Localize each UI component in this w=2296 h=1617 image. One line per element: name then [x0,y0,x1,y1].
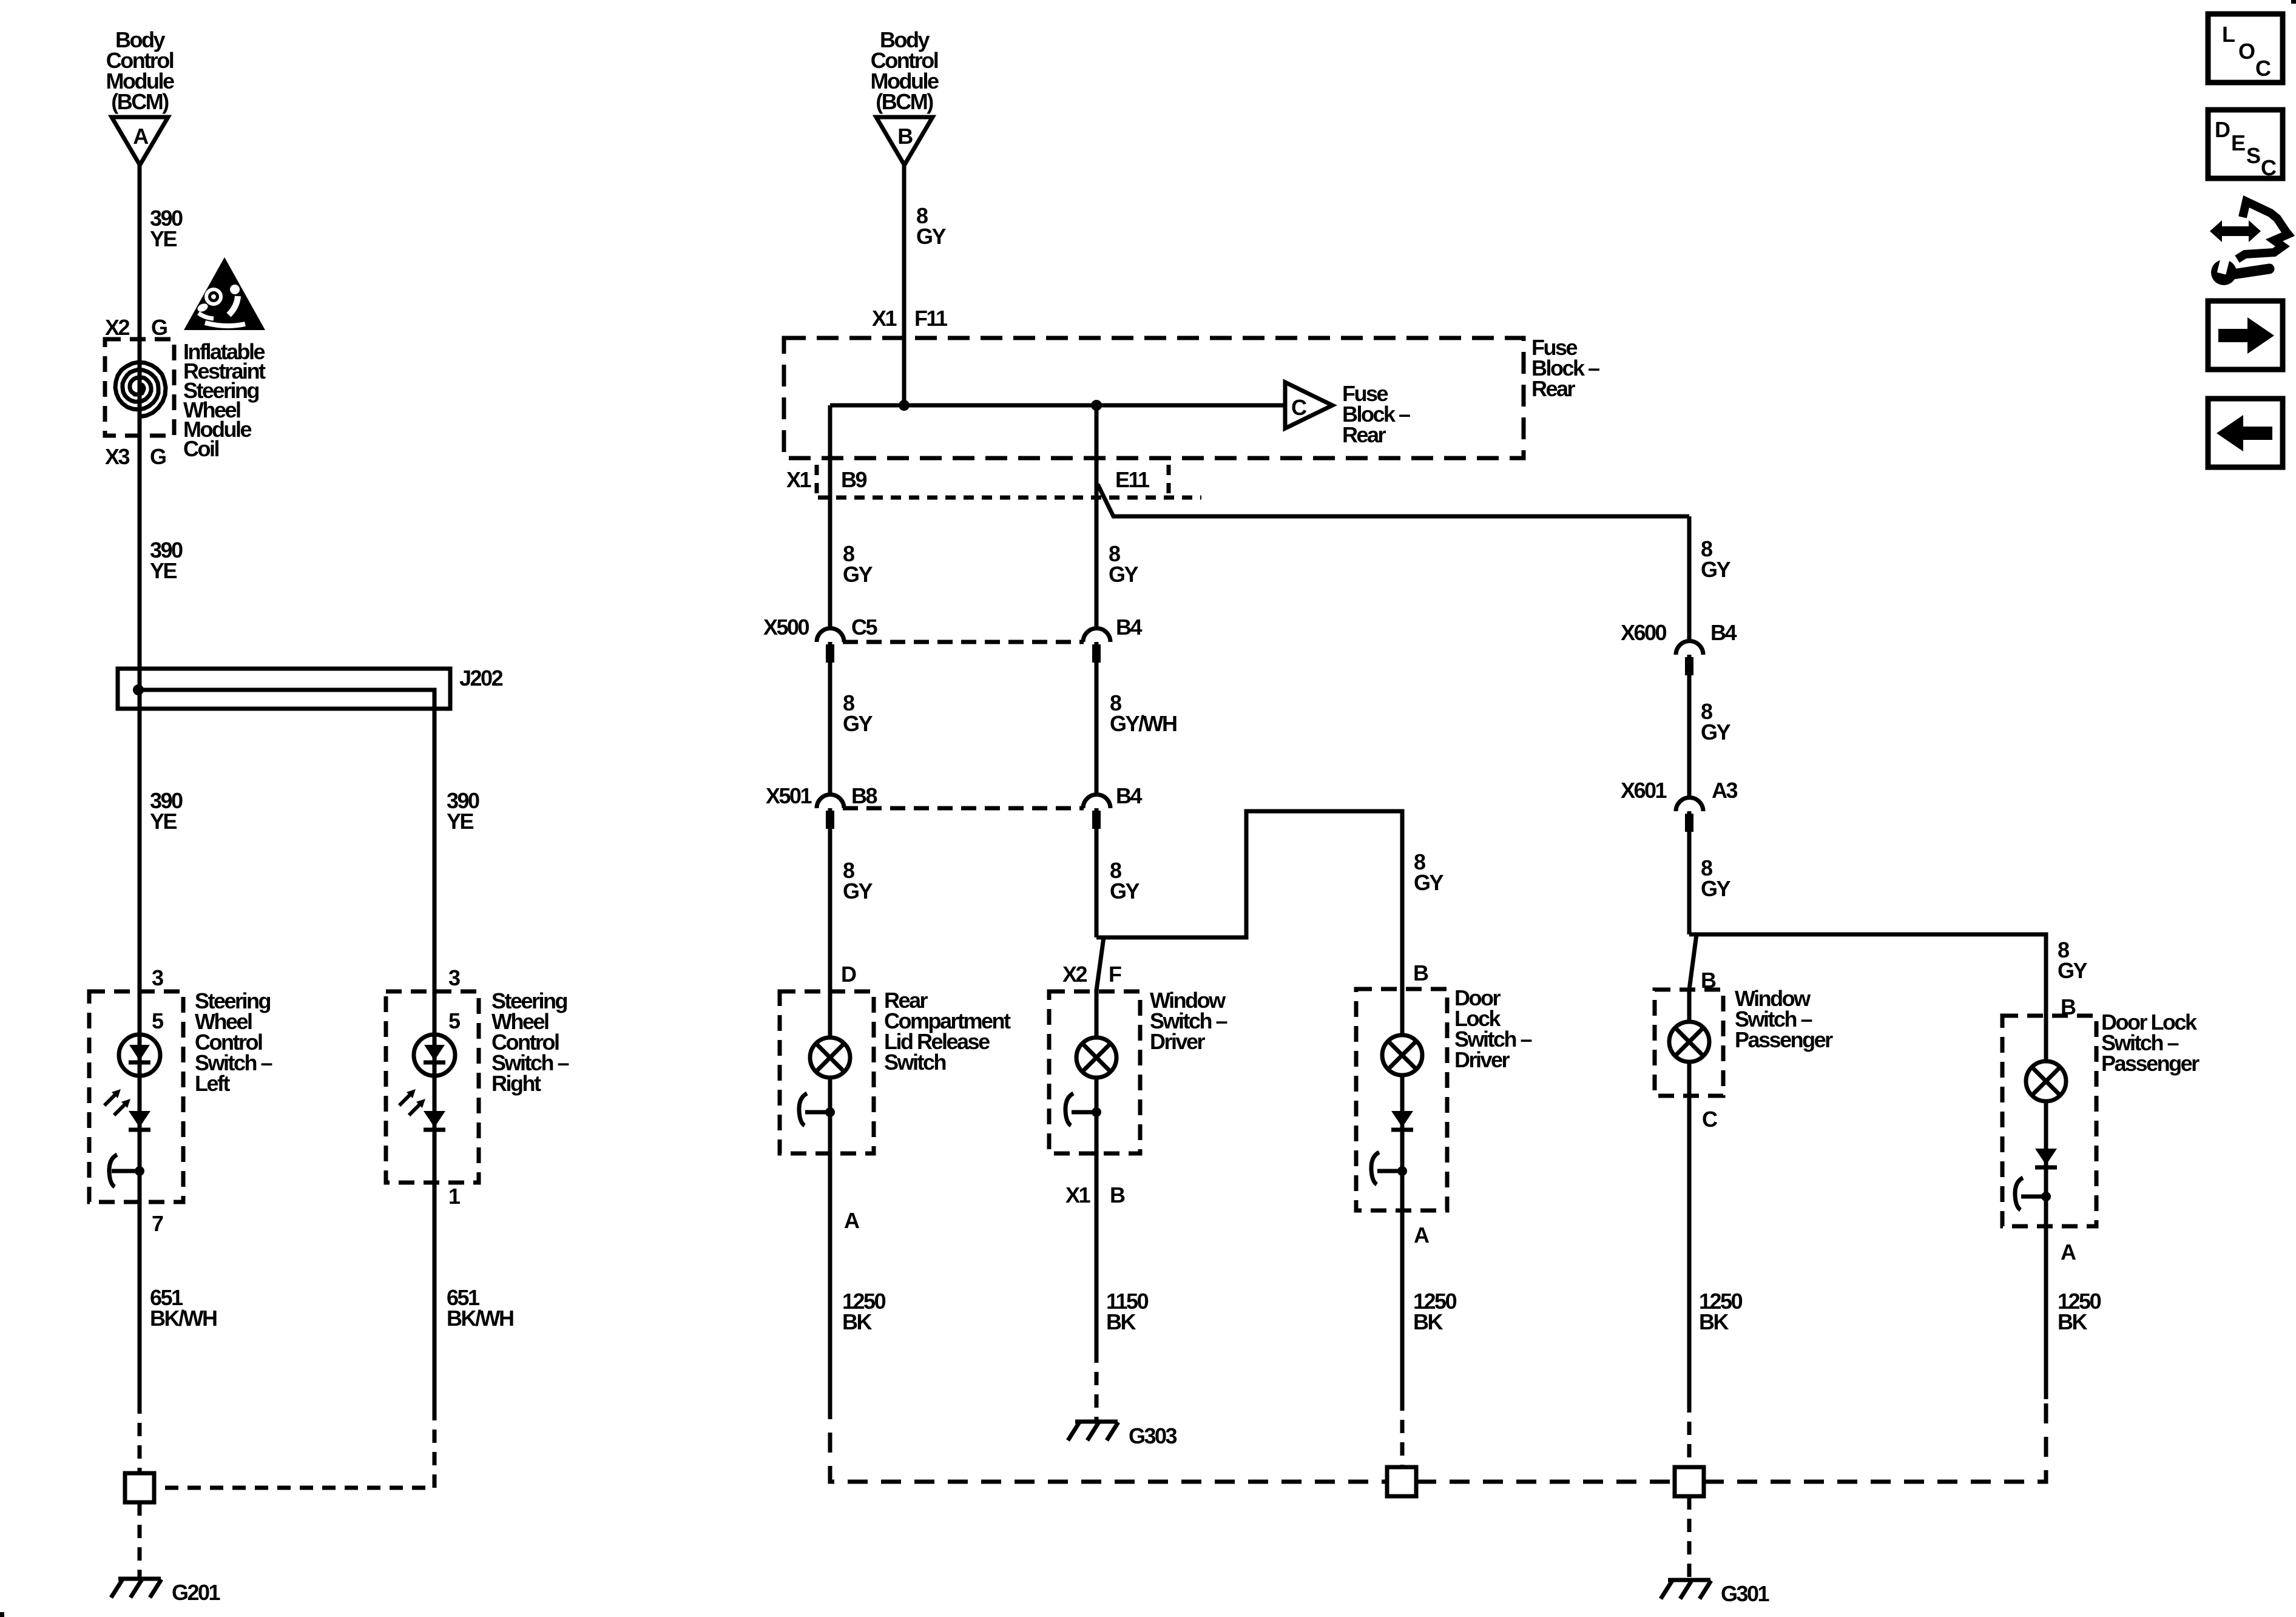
switch contact window driver [1065,1093,1101,1126]
splice pack J202 [118,666,503,709]
node X2 pin F window driver [1062,962,1121,987]
bus dashed between splices [1416,1480,1675,1484]
splice square window passenger [1675,1467,1704,1496]
node X600 labels [1621,620,1737,645]
label Inflatable Restraint Steering Wheel Module Coil [183,339,266,461]
wire dashed window passenger to splice [1687,1399,1692,1467]
svg-text:B4: B4 [1116,615,1142,640]
svg-text:B: B [897,124,913,149]
switch contact door passenger [2015,1178,2051,1210]
pin 7 [152,1211,163,1236]
lamp rear compartment [810,1038,850,1078]
svg-text:J202: J202 [459,666,503,690]
label 1250 BK window passenger [1699,1289,1743,1334]
svg-text:A: A [2061,1240,2076,1264]
label 1250 BK door passenger [2058,1289,2101,1334]
node X1 pins B9 E11 [786,467,1150,492]
diode door passenger [2035,1149,2057,1167]
svg-text:C: C [2255,56,2271,81]
ground G201 [111,1579,221,1605]
label 8 GY below X500 [843,690,873,736]
svg-text:A: A [844,1208,860,1233]
svg-text:5: 5 [448,1008,461,1033]
node X500 labels [763,615,1142,640]
wire through door driver [1400,989,1405,1397]
label Fuse Block - Rear (outside box) [1531,335,1599,401]
label 390 YE [150,538,183,583]
inflatable restraint coil dashed box [105,339,174,436]
node X601 labels [1621,778,1737,803]
wire window driver branch [1096,811,1402,989]
svg-text:L: L [2222,22,2235,47]
svg-text:X3: X3 [105,444,130,469]
junction dot at E11 branch [1091,400,1102,411]
svg-text:F: F [1109,962,1121,987]
fuse block connector bracket X1 [817,465,1201,498]
svg-text:A: A [1414,1223,1430,1247]
svg-text:E: E [2231,130,2245,155]
pin 3 right [448,965,460,990]
connector triangle C to fuse block rear [1285,382,1332,428]
label 651 BK/WH left [150,1285,217,1331]
label 8 GY door driver [1414,849,1444,895]
pin 5 left [152,1008,164,1033]
svg-text:G303: G303 [1129,1423,1177,1448]
junction dot below B [899,400,910,411]
svg-text:B9: B9 [841,467,866,492]
svg-text:X1: X1 [786,467,812,492]
connector X601 A3 [1676,798,1703,832]
fuse block rear dashed box [784,338,1524,458]
icon previous arrow box [2208,399,2283,467]
wire dashed door driver to splice [1400,1397,1405,1467]
pin B door driver [1413,960,1428,985]
svg-text:X500: X500 [763,615,809,640]
steering wheel control switch left dashed box [89,991,183,1202]
connector triangle B (BCM) [876,117,933,165]
node X2 pin G [105,315,167,340]
junction dot in J202 [133,684,144,695]
svg-text:X2: X2 [105,315,130,340]
connector X600 B4 [1676,641,1703,676]
wire from J202 junction to right branch [138,690,434,1407]
wire dashed splice to G301 [1687,1496,1692,1579]
svg-text:A3: A3 [1712,778,1737,803]
svg-text:3: 3 [448,965,460,990]
diode right switch [424,1111,445,1130]
svg-text:D: D [841,962,856,987]
icon next arrow box [2208,301,2283,370]
diode door driver [1391,1111,1413,1130]
label Rear Compartment Lid Release Switch [884,988,1011,1075]
wire dashed rear compartment to bus [830,1399,1387,1482]
node X1 pin F11 [872,306,948,331]
icon harness repair (arrow, outline, wrench) [2210,201,2288,285]
lamp door driver [1382,1035,1422,1075]
wire branch to door lock passenger [1689,934,2046,1014]
ground G303 [1068,1422,1177,1448]
svg-text:D: D [2215,117,2230,142]
label 8 GY/WH below X500 B4 [1110,690,1177,736]
svg-text:B8: B8 [851,783,877,808]
pin A rear compartment [844,1208,860,1233]
splice square door driver [1387,1467,1416,1496]
label Fuse Block - Rear (at triangle C) [1342,381,1410,447]
wire slant into window switch passenger [1689,934,1697,990]
page corner mark top right [2291,0,2296,4]
connector X500 B4 half [1083,629,1110,663]
label 8 GY (E11) [1109,541,1139,587]
svg-text:B4: B4 [1116,783,1142,808]
label Window Switch - Driver [1150,988,1227,1054]
lamp window driver [1076,1038,1116,1078]
wire through door passenger [2044,1014,2048,1399]
door lock switch passenger dashed box [2002,1016,2096,1226]
diode left switch [129,1111,150,1130]
steering wheel control switch right dashed box [386,991,479,1183]
wire 390 YE from BCM A down [138,165,142,669]
node Body Control Module (BCM) A label [106,27,174,114]
LED arrows left [104,1089,130,1115]
coil (clockspring spiral) [115,362,166,417]
window switch driver dashed box [1049,991,1140,1153]
svg-text:X501: X501 [766,783,812,808]
svg-text:C5: C5 [851,615,877,640]
pin B door passenger [2061,994,2076,1019]
svg-text:C: C [2261,155,2277,180]
label 651 BK/WH right [447,1285,513,1331]
svg-text:E11: E11 [1115,467,1150,492]
svg-text:G: G [150,444,166,469]
svg-text:G201: G201 [172,1580,221,1605]
svg-text:O: O [2238,39,2255,64]
LED lamp right switch [414,1035,455,1076]
bus dashed to door passenger corner [1704,1399,2046,1482]
node X3 pin G [105,444,166,469]
svg-text:A: A [133,124,149,149]
pin 3 left [152,965,163,990]
label 390 YE left branch [150,788,183,834]
pin A door passenger [2061,1240,2076,1264]
window switch passenger dashed box [1655,990,1723,1096]
svg-text:B4: B4 [1710,620,1737,645]
inline connector X501 dashed line [843,806,1084,811]
page corner mark bottom left [0,1612,4,1617]
node Body Control Module (BCM) B label [871,27,939,114]
label 390 YE right branch [447,788,479,834]
wire dashed to G303 [1095,1349,1099,1420]
label Door Lock Switch - Passenger [2101,1010,2200,1076]
svg-text:B: B [1413,960,1428,985]
connector triangle A (BCM) [112,117,168,165]
label Door Lock Switch - Driver [1454,985,1532,1072]
connector X501 B4 half [1083,795,1110,829]
pin 5 right [448,1008,461,1033]
label 8 GY (B9) [843,541,873,587]
pin B window passenger [1701,968,1716,993]
LED lamp left switch [119,1035,160,1076]
svg-text:3: 3 [152,965,163,990]
connector X501 B8 half [817,795,844,829]
icon DESC box [2208,110,2283,180]
svg-text:G: G [151,315,167,340]
svg-text:B: B [1110,1183,1125,1207]
label 390 YE [150,206,183,251]
ground G301 [1661,1580,1770,1606]
svg-text:F11: F11 [914,306,948,331]
label 8 GY below X600 [1701,699,1731,744]
wire dashed left to splice [138,1400,142,1473]
wire 8 GY from BCM B [902,165,907,405]
label 1250 BK door driver [1413,1289,1457,1334]
wire left branch below J202 [138,709,142,1400]
label 8 GY above X600 [1701,536,1731,582]
inline connector X500 dashed line [843,640,1084,644]
lamp door passenger [2026,1061,2066,1101]
svg-text:X1: X1 [872,306,897,331]
svg-text:G301: G301 [1721,1581,1770,1606]
pin 1 [448,1184,461,1209]
svg-text:C: C [1702,1107,1718,1132]
label 8 GY below X601 [1701,856,1731,901]
svg-text:X601: X601 [1621,778,1667,803]
door lock switch driver dashed box [1356,989,1447,1210]
icon LOC box [2208,14,2283,83]
svg-text:S: S [2246,143,2260,168]
svg-text:C: C [1291,395,1307,420]
airbag warning symbol [184,257,265,330]
label Window Switch - Passenger [1735,986,1833,1052]
splice S201 square [125,1473,154,1502]
rear compartment lid release switch dashed box [780,991,874,1153]
svg-text:X1: X1 [1065,1183,1091,1207]
switch contact rear compartment [799,1093,835,1126]
node X1 pin B window driver [1065,1183,1125,1207]
wire through window passenger [1687,990,1692,1399]
pin D rear compartment [841,962,856,987]
wire E11 branch to right [1098,484,1689,516]
wire through window driver [1095,989,1099,1349]
wire fuse block internal bus [830,403,1286,408]
switch contact left [109,1155,144,1187]
pin C window passenger [1702,1107,1718,1132]
svg-text:X2: X2 [1062,962,1087,987]
switch contact door driver [1371,1152,1407,1184]
wire dashed splice to G201 [138,1502,142,1578]
label 1150 BK [1106,1289,1149,1334]
label 1250 BK [842,1289,886,1334]
connector X500 C5 half [817,629,844,663]
label 8 GY door passenger [2058,937,2088,983]
svg-text:1: 1 [448,1184,461,1209]
wire slant into window switch driver [1096,937,1104,990]
node X501 labels [766,783,1142,808]
svg-text:X600: X600 [1621,620,1667,645]
label Steering Wheel Control Switch - Right [491,988,569,1096]
label 8 GY below X501 left [843,858,873,903]
wire dashed right branch to bus [154,1407,434,1488]
label Steering Wheel Control Switch - Left [195,988,272,1096]
wire X600 column down [1687,516,1692,934]
LED arrows right [399,1089,425,1115]
svg-text:5: 5 [152,1008,164,1033]
wire E11 column down [1095,405,1099,937]
pin A door driver [1414,1223,1430,1247]
label 8 GY below X501 right [1110,858,1140,903]
svg-text:7: 7 [152,1211,163,1236]
label 8 GY [916,203,947,249]
wire B9 column down [828,405,832,1399]
lamp window passenger [1669,1022,1709,1062]
